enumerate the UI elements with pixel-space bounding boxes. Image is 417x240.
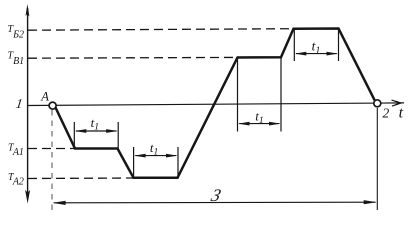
svg-text:A: A — [40, 90, 49, 104]
svg-text:t: t — [399, 105, 404, 122]
svg-text:2: 2 — [383, 106, 390, 121]
